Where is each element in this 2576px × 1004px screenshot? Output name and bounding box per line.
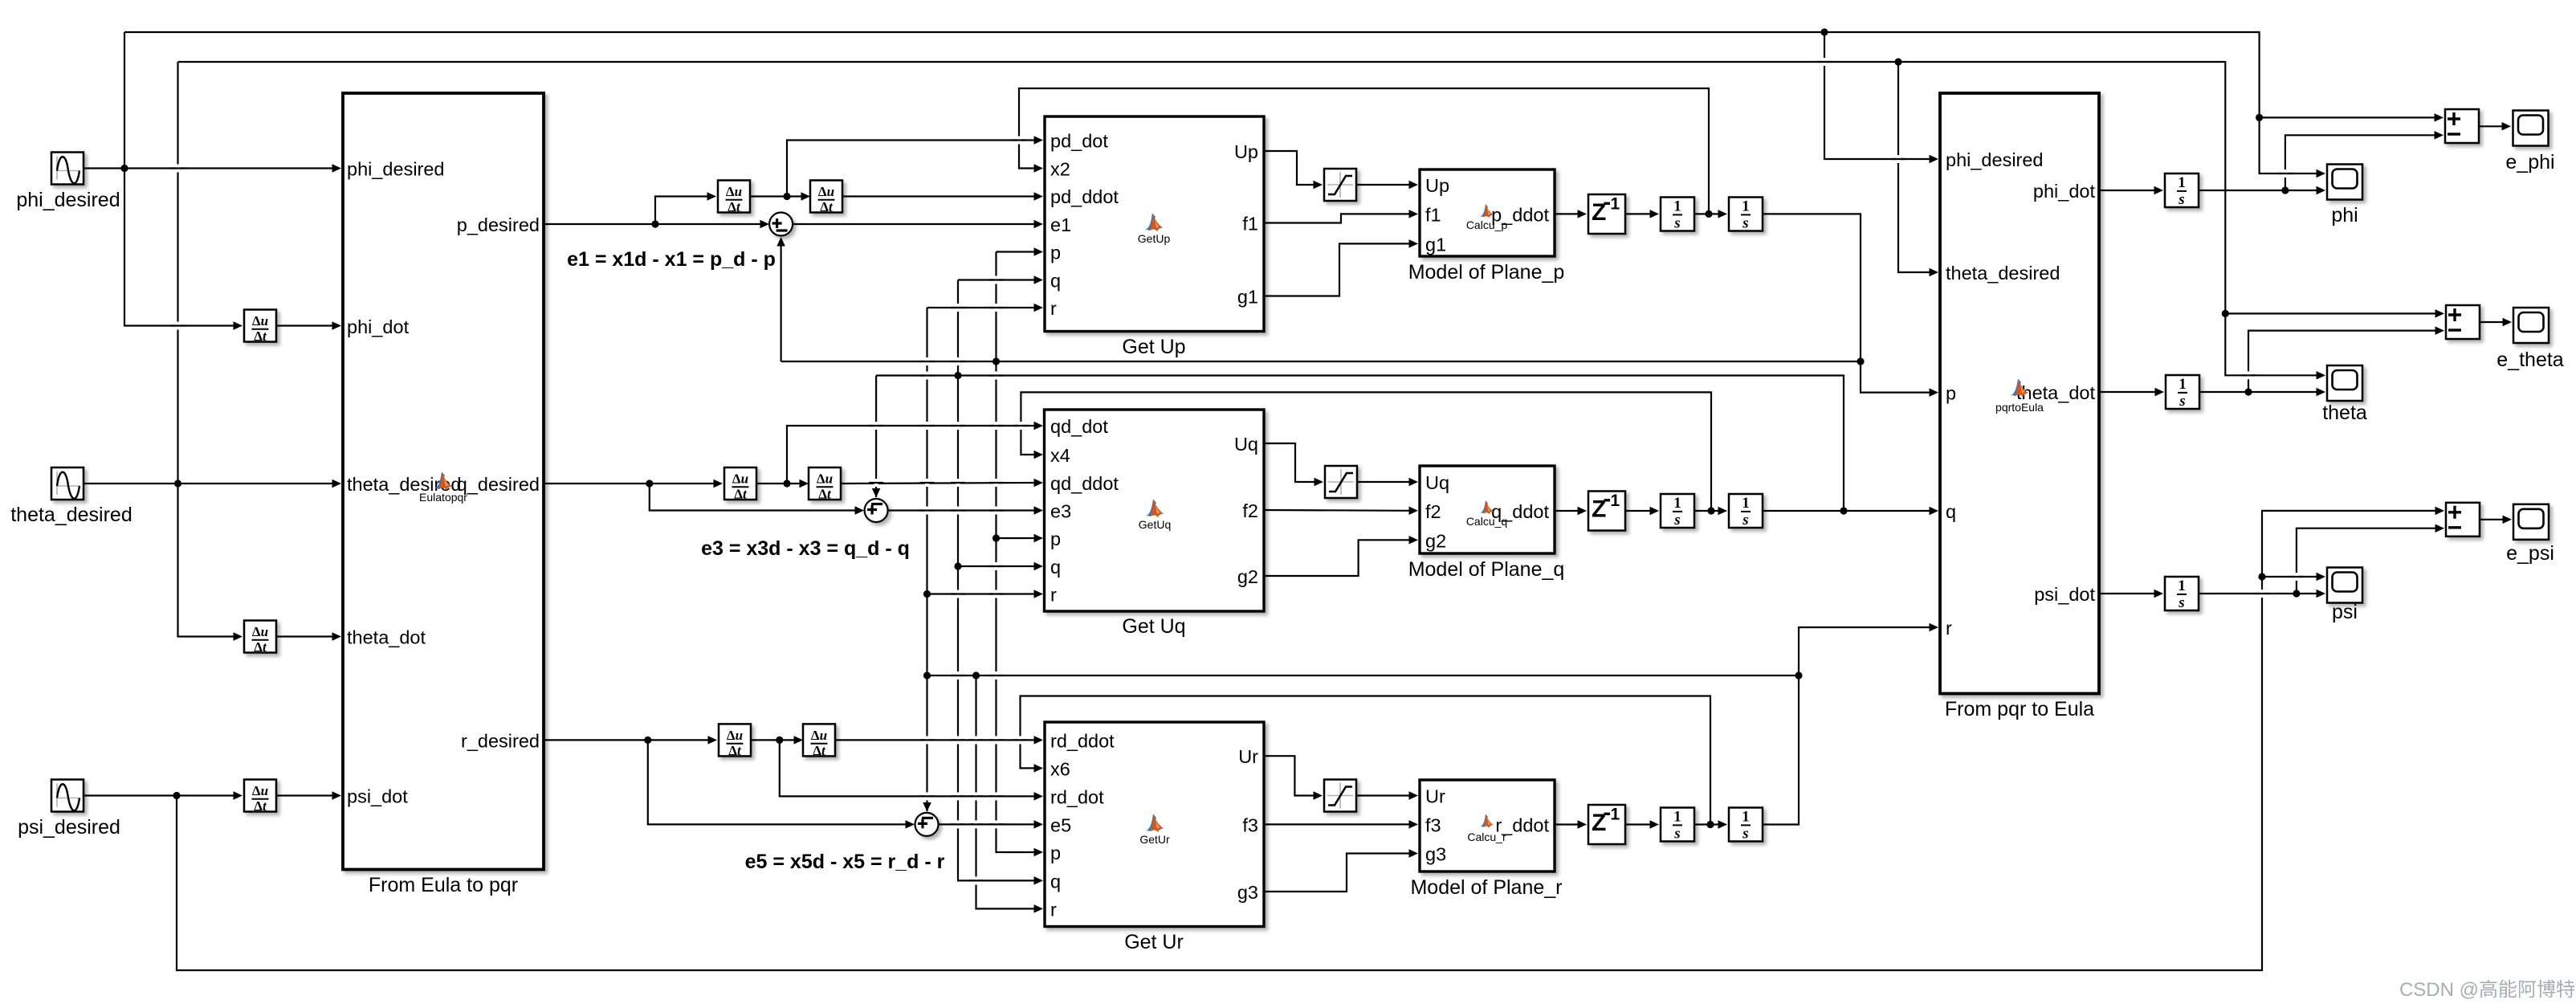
svg-text:1: 1 [1742,809,1750,826]
scope e_theta [2497,308,2564,371]
svg-text:Δu: Δu [252,624,268,639]
integrator 1/s q second [1729,494,1763,529]
svg-text:q: q [1050,871,1061,892]
svg-text:GetUr: GetUr [1139,833,1170,846]
svg-text:f1: f1 [1425,204,1441,225]
integrator 1/s phi [2165,173,2199,208]
svg-text:r: r [1050,585,1057,606]
MATLAB function block Model of Plane_r [1410,780,1562,899]
svg-text:f2: f2 [1242,500,1258,521]
wire q unit delay to integrator 1 [1625,510,1652,512]
scope theta [2322,365,2367,424]
wire p unit delay to integrator 1 [1625,213,1652,214]
svg-text:phi: phi [2331,204,2358,227]
svg-text:p: p [1050,843,1061,863]
wire p bus vertical x=1240.5 with stubs to Get Up/Uq/Ur p inputs [997,252,1037,853]
wire rd_dot riser into Get Ur rd_dot input [780,740,1036,796]
svg-text:psi_dot: psi_dot [2034,584,2095,605]
svg-text:e_theta: e_theta [2497,349,2564,371]
MATLAB function block Get Ur [1045,722,1264,953]
wire q feedback line y=467.5 [876,376,1844,512]
wire e_phi sum output to e_phi scope [2479,125,2504,127]
wire phi_desired vertical bus x=155 (to top line and derivative) [124,32,235,326]
svg-text:Δu: Δu [252,783,268,798]
MATLAB function block Model of Plane_p [1408,169,1565,284]
svg-text:Δt: Δt [728,199,741,214]
svg-text:theta: theta [2322,402,2367,424]
wire saturation to Model of Plane_q Uq input [1357,481,1411,483]
integrator 1/s psi [2165,577,2199,611]
wire Get Up f1 output to Model of Plane_p f1 input [1264,214,1411,222]
svg-text:q_desired: q_desired [457,474,540,495]
svg-text:p_desired: p_desired [457,214,540,235]
wire theta derivative output to theta_dot input [276,635,337,637]
svg-text:pd_dot: pd_dot [1050,131,1108,152]
svg-text:e5 = x5d - x5 = r_d - r: e5 = x5d - x5 = r_d - r [745,851,945,873]
scope e_psi [2506,504,2554,565]
svg-text:e1: e1 [1050,214,1071,235]
wire r_ddot to unit delay [1555,823,1579,825]
svg-text:1: 1 [1673,495,1681,512]
wire pd_ddot into Get Up pd_ddot input [842,195,1036,197]
svg-text:e1 = x1d - x1 = p_d - p: e1 = x1d - x1 = p_d - p [567,248,776,271]
svg-text:g2: g2 [1237,566,1258,587]
MATLAB function block Model of Plane_q [1408,466,1565,581]
svg-text:1: 1 [2178,174,2186,191]
wire Get Ur g3 output to Model of Plane_r g3 input [1264,854,1411,892]
svg-text:x6: x6 [1050,758,1070,779]
integrator 1/s p second [1729,198,1763,232]
svg-text:Get Ur: Get Ur [1124,931,1184,953]
svg-text:From Eula to pqr: From Eula to pqr [369,874,518,896]
svg-text:p: p [1946,383,1956,404]
svg-text:1: 1 [1742,198,1750,215]
svg-text:rd_ddot: rd_ddot [1050,730,1115,751]
svg-text:q: q [1946,501,1956,522]
wire rd derivative chain mid [751,739,799,741]
wire pd derivative chain mid [750,195,806,197]
svg-text:q: q [1050,271,1061,292]
svg-text:Δt: Δt [254,798,267,814]
svg-text:r: r [1050,298,1057,319]
wire e_theta sum output to e_theta scope [2480,321,2505,323]
svg-text:Δt: Δt [813,743,826,758]
wire phi branch to e_phi sum minus input [2285,135,2436,190]
svg-text:Δu: Δu [252,313,268,329]
unit delay Z-1 block r [1588,805,1625,844]
wire q_desired output into first q derivative [544,483,720,484]
svg-text:Ur: Ur [1238,746,1258,767]
svg-text:s: s [1742,215,1748,232]
wire theta_dot output into theta integrator [2099,391,2157,393]
svg-text:e_psi: e_psi [2506,542,2554,565]
svg-text:From pqr to Eula: From pqr to Eula [1945,698,2094,720]
sine wave source phi_desired [16,153,120,212]
wire p_desired output to e1 sum [544,223,765,225]
wire phi_desired branch to e_phi sum plus input [2260,116,2436,118]
derivative block qd_ddot [809,467,841,502]
integrator 1/s q first [1661,494,1694,529]
svg-text:qd_ddot: qd_ddot [1050,473,1119,494]
svg-text:1: 1 [1611,195,1620,214]
svg-text:psi: psi [2332,601,2358,623]
svg-text:Model of Plane_r: Model of Plane_r [1410,876,1562,899]
wire q integrator 1 to integrator 2 [1694,510,1720,512]
wire q to From pqr to Eula q input [1763,510,1931,512]
unit delay Z-1 block p [1588,194,1625,234]
svg-text:phi_dot: phi_dot [347,316,410,337]
sum block e_theta [2446,305,2480,339]
wire p_ddot to unit delay [1555,213,1579,214]
svg-text:g3: g3 [1425,844,1446,865]
sum block e_phi [2445,109,2479,143]
wire psi_desired branch to psi scope top input [2262,576,2318,578]
wire q bus vertical x=1193 with stubs to Get Up/Uq/Ur q inputs [958,280,1036,881]
svg-text:Δt: Δt [728,743,742,758]
svg-text:pqrtoEula: pqrtoEula [1995,401,2044,414]
svg-text:1: 1 [2178,578,2186,594]
wire qd derivative chain mid [756,483,805,484]
wire x2 loop from p integrator junction to Get Up x2 input [1019,88,1709,214]
wire theta branch to e_theta sum minus input [2248,331,2437,392]
wire psi derivative output to psi_dot input [276,794,337,796]
wire r feedback into e5 sum minus (top) input [926,675,927,811]
svg-text:psi_dot: psi_dot [347,786,408,807]
wire phi_desired top bus y=40 to far right [124,32,2318,173]
wire r_desired output into first r derivative [545,739,715,741]
derivative block psi_dot [244,780,276,814]
subsystem From pqr to Eula [1940,93,2099,720]
wire theta_desired branch down into From pqr to Eula theta_desired input [1898,62,1931,272]
wire p to From pqr to Eula p input [1763,214,1931,392]
wire crossing gaps (line hops) [171,58,2304,884]
svg-text:s: s [1673,215,1680,232]
svg-text:Δt: Δt [734,487,748,502]
svg-text:Δu: Δu [811,728,827,743]
svg-text:Δu: Δu [817,471,833,487]
svg-text:Ur: Ur [1425,786,1445,807]
svg-text:s: s [1673,826,1680,843]
svg-text:x2: x2 [1050,159,1070,180]
svg-text:Δu: Δu [726,184,742,199]
integrator 1/s theta [2166,375,2199,410]
svg-text:p: p [1050,529,1061,549]
svg-text:Calcu_r: Calcu_r [1467,831,1506,843]
svg-text:1: 1 [1611,806,1620,824]
integrator 1/s p first [1661,198,1694,232]
svg-text:r: r [1050,899,1057,920]
svg-text:1: 1 [1673,198,1681,215]
derivative block qd_dot [724,467,756,502]
svg-text:Get Up: Get Up [1122,336,1185,358]
wire Get Up g1 output to Model of Plane_p g1 input [1264,243,1411,296]
wire psi integrator to psi scope bottom input [2199,593,2318,594]
svg-text:qd_dot: qd_dot [1050,416,1108,437]
wire theta_desired source to From Eula to pqr input [84,483,337,484]
wire r integrator 1 to integrator 2 [1694,823,1720,825]
svg-text:CSDN @高能阿博特: CSDN @高能阿博特 [2399,979,2575,1001]
wire psi_desired bottom bus to e_psi sum plus input [177,511,2437,970]
derivative block rd_dot [719,724,751,758]
svg-text:q: q [1050,557,1061,578]
wire Get Uq Uq output to saturation [1264,443,1316,482]
wire q feedback into e3 sum minus (top) input [875,376,877,498]
wire r stub from r line to Get Ur r input [976,675,1037,908]
wire phi integrator to phi scope bottom input [2199,190,2318,191]
svg-text:Δt: Δt [254,329,267,344]
svg-text:pd_ddot: pd_ddot [1050,186,1119,207]
scope phi [2327,165,2362,227]
wire theta_desired vertical bus x=221.5 (to top line and derivative) [178,62,236,637]
svg-text:Uq: Uq [1425,472,1449,493]
svg-text:Δt: Δt [818,487,832,502]
svg-text:e_phi: e_phi [2505,151,2554,173]
wire q_desired branch down to e3 sum plus input [650,484,860,511]
wire x6 loop from r integrator junction to Get Ur x6 input [1021,696,1711,825]
svg-text:GetUq: GetUq [1139,518,1171,531]
wire phi_desired source to From Eula to pqr input [84,167,337,169]
saturation block p [1324,169,1356,201]
derivative block pd_dot [718,181,750,215]
svg-text:s: s [1673,512,1680,529]
integrator 1/s r second [1729,808,1763,843]
MATLAB function block Get Up [1045,116,1264,358]
wire e5 sum output to Get Ur e5 input [939,823,1037,825]
svg-text:Δu: Δu [732,471,748,487]
svg-text:Up: Up [1234,141,1258,162]
svg-text:1: 1 [1611,492,1620,510]
wire Get Ur f3 output to Model of Plane_r f3 input [1264,823,1411,825]
svg-text:Model of Plane_q: Model of Plane_q [1408,558,1565,581]
wire qd_dot riser into Get Uq qd_dot input [787,426,1036,484]
sum block e_psi [2446,503,2480,537]
svg-text:1: 1 [2179,376,2187,393]
wire e3 sum output to Get Uq e3 input [888,509,1036,511]
svg-text:g1: g1 [1237,287,1258,308]
svg-text:p: p [1050,243,1061,263]
svg-text:s: s [2178,594,2184,611]
svg-text:Model of Plane_p: Model of Plane_p [1408,261,1565,284]
wire e_psi sum output to e_psi scope [2480,519,2505,520]
sum e1 (p_desired minus p) [769,213,793,236]
svg-text:s: s [1742,826,1748,843]
svg-text:s: s [1742,512,1748,529]
scope psi [2327,568,2362,624]
svg-text:f2: f2 [1425,501,1441,522]
wire theta integrator to theta scope bottom input [2199,391,2318,393]
svg-text:Δt: Δt [254,639,267,655]
sum e3 (q_desired minus q) [865,499,888,522]
derivative block pd_ddot [810,181,842,215]
svg-text:r: r [1946,618,1952,639]
saturation block q [1325,466,1357,498]
svg-text:phi_dot: phi_dot [2033,181,2096,202]
svg-text:psi_desired: psi_desired [18,816,120,839]
wire r feedback line y=841 [927,675,1800,676]
svg-text:Up: Up [1425,175,1449,196]
svg-text:phi_desired: phi_desired [1946,149,2044,170]
wire Get Uq g2 output to Model of Plane_q g2 input [1264,540,1411,576]
sine wave source theta_desired [10,467,132,526]
wire e1 sum output to Get Up e1 input [793,223,1036,225]
wire Get Up Up output to saturation [1264,151,1315,185]
saturation block r [1324,780,1356,812]
svg-text:Δu: Δu [818,184,834,199]
svg-text:r_desired: r_desired [461,730,540,751]
svg-text:Δt: Δt [820,199,834,214]
svg-text:Get Uq: Get Uq [1122,615,1185,638]
svg-text:f3: f3 [1425,814,1441,835]
scope e_phi [2505,111,2554,174]
svg-text:1: 1 [1673,809,1681,826]
wire Get Ur Ur output to saturation [1264,756,1315,795]
wire p feedback line y=450 [781,361,1861,362]
wire x4 loop from q integrator junction to Get Uq x4 input [1021,392,1711,511]
sine wave source psi_desired [18,780,120,839]
derivative block theta_dot [244,621,276,655]
svg-text:Eulatopqr: Eulatopqr [419,491,467,504]
wire q_ddot to unit delay [1555,510,1579,512]
svg-text:GetUp: GetUp [1138,232,1171,245]
MATLAB function block Get Uq [1045,410,1265,638]
wire psi_dot output into psi integrator [2099,593,2156,594]
wire saturation to Model of Plane_r Ur input [1356,794,1411,796]
wire saturation to Model of Plane_p Up input [1356,184,1411,186]
svg-text:theta_desired: theta_desired [10,504,132,526]
svg-text:s: s [2179,393,2185,410]
sum e5 (r_desired minus r) [915,813,939,836]
svg-text:phi_desired: phi_desired [16,189,120,211]
svg-text:Uq: Uq [1234,434,1258,455]
wire r bus vertical x=1154.5 with stubs to Get Up/Uq r inputs [926,308,927,675]
wire phi_desired branch down into From pqr to Eula phi_desired input [1824,32,1931,159]
svg-text:s: s [2178,191,2184,208]
wire p_desired branch up into first derivative [655,197,709,225]
svg-text:x4: x4 [1050,445,1070,466]
wire qd_ddot into Get Uq qd_ddot input [841,483,1036,484]
wire psi branch to e_psi sum minus input [2297,529,2437,594]
svg-text:g3: g3 [1237,882,1258,903]
svg-text:g2: g2 [1425,530,1446,551]
unit delay Z-1 block q [1588,492,1625,531]
svg-text:Calcu_q: Calcu_q [1466,515,1507,528]
derivative block phi_dot [244,310,276,345]
wire r to From pqr to Eula r input [1763,627,1931,825]
wire psi_desired source into psi derivative [84,794,235,796]
svg-text:e5: e5 [1050,814,1071,835]
svg-text:e3: e3 [1050,501,1071,522]
svg-text:theta_dot: theta_dot [347,627,426,648]
svg-text:phi_desired: phi_desired [347,159,445,180]
svg-text:Δu: Δu [727,728,743,743]
svg-text:e3 = x3d - x3 = q_d - q: e3 = x3d - x3 = q_d - q [701,537,910,560]
wire r unit delay to integrator 1 [1625,823,1652,825]
svg-text:rd_dot: rd_dot [1050,786,1104,807]
svg-text:Calcu_p: Calcu_p [1466,218,1508,231]
wire pd_dot riser into Get Up pd_dot input [787,141,1036,197]
wire p feedback into e1 sum minus (bottom) input [780,239,781,361]
subsystem From Eula to pqr [343,93,544,896]
svg-text:g1: g1 [1425,234,1446,255]
wire r_desired branch down to e5 sum plus input [648,740,911,824]
wire theta_desired branch to e_theta sum plus input [2225,312,2437,314]
wire Get Uq f2 output to Model of Plane_q f2 input [1264,509,1411,512]
wire theta_desired top bus y=77 to far right [178,62,2319,375]
svg-text:1: 1 [1742,495,1750,512]
wire rd_ddot into Get Ur rd_ddot input [835,739,1036,741]
wire phi derivative output to phi_dot input [276,324,337,326]
svg-text:f1: f1 [1242,214,1258,235]
svg-text:f3: f3 [1242,814,1258,835]
derivative block rd_ddot [803,724,835,758]
wire p integrator 1 to integrator 2 [1694,213,1720,214]
integrator 1/s r first [1661,808,1694,843]
wire phi_dot output into phi integrator [2099,190,2156,191]
svg-text:theta_desired: theta_desired [1946,263,2060,284]
